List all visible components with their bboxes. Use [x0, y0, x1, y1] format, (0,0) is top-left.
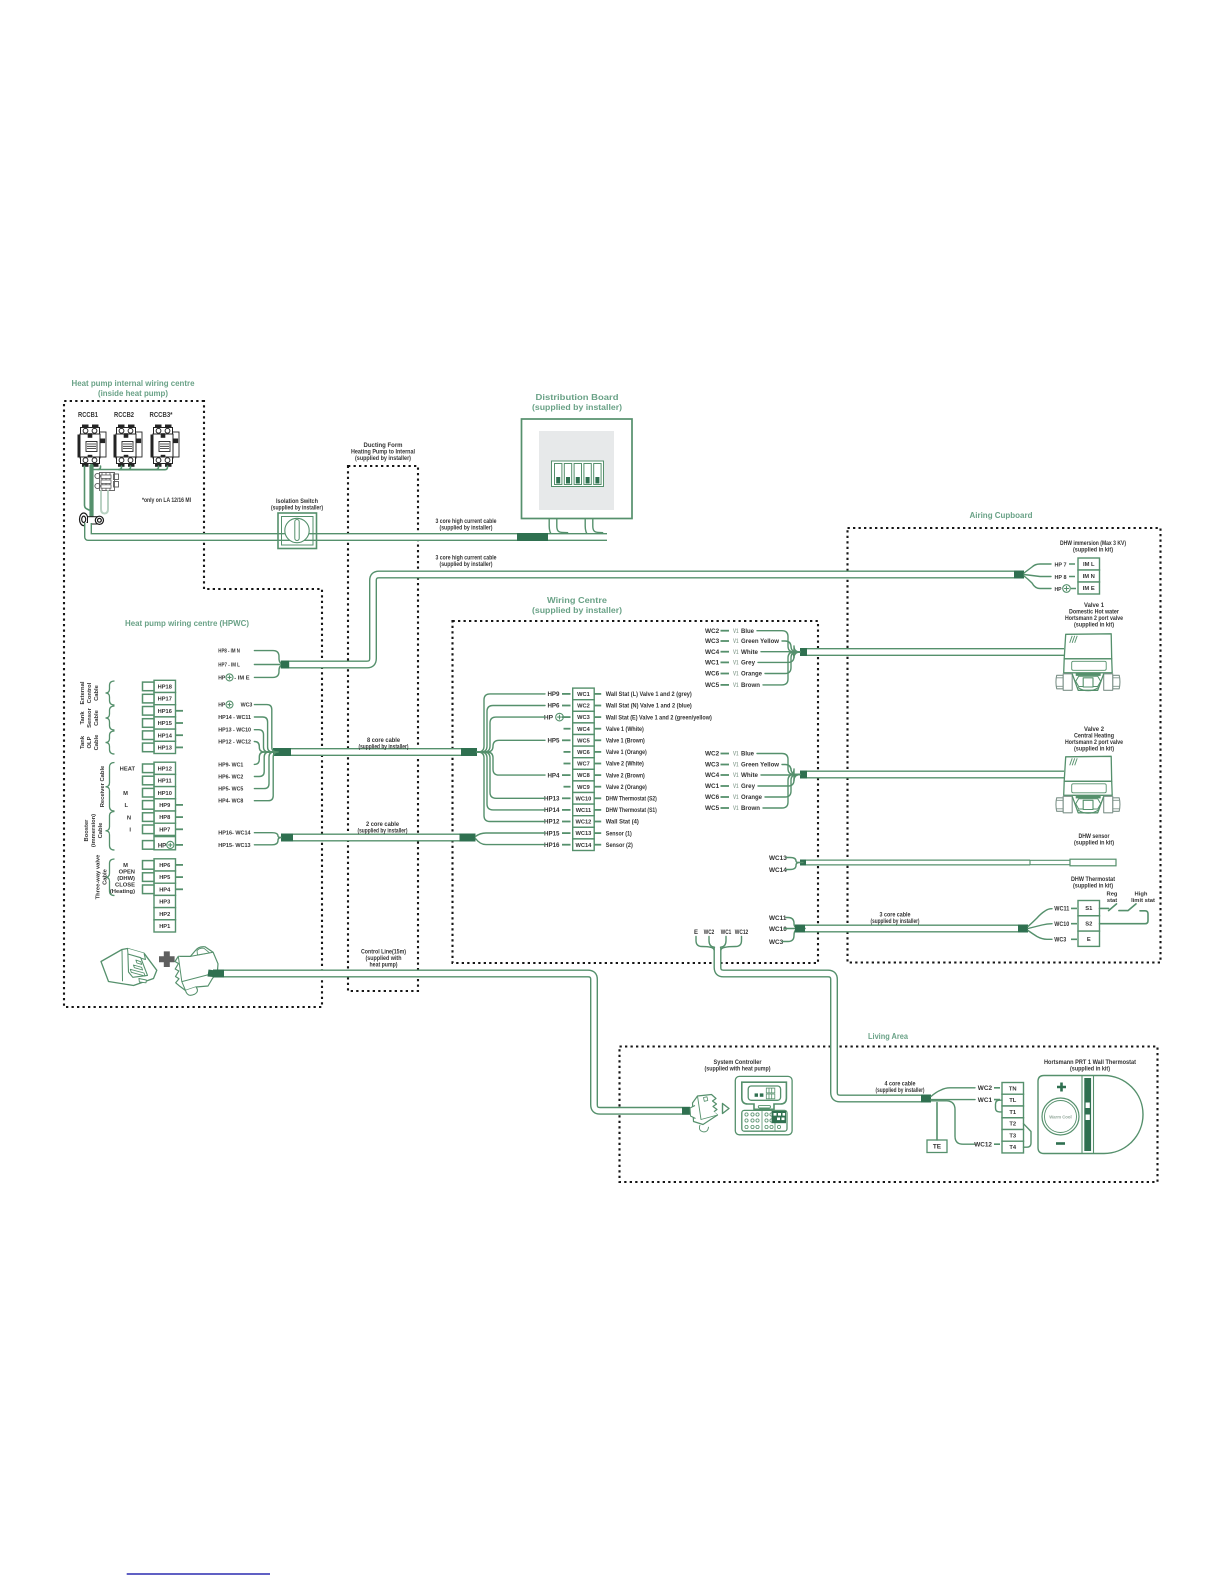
svg-text:IM L: IM L	[1083, 562, 1095, 568]
brace tank OLP cable	[106, 731, 115, 754]
svg-text:*only on LA 12/16 MI: *only on LA 12/16 MI	[142, 497, 191, 504]
svg-text:V1: V1	[733, 784, 739, 790]
svg-text:HP12: HP12	[544, 819, 560, 826]
svg-text:HP5: HP5	[547, 738, 560, 745]
svg-text:HEAT: HEAT	[120, 767, 136, 773]
svg-text:(supplied by installer): (supplied by installer)	[532, 402, 622, 412]
system controller body	[735, 1076, 792, 1134]
TE box	[927, 1140, 947, 1153]
svg-text:CLOSE: CLOSE	[115, 883, 135, 889]
svg-text:Valve 2 (White): Valve 2 (White)	[606, 761, 644, 768]
svg-text:WC1: WC1	[705, 783, 720, 790]
svg-text:V1: V1	[733, 672, 739, 678]
svg-text:OLP: OLP	[87, 736, 93, 748]
svg-text:(supplied by installer): (supplied by installer)	[871, 918, 920, 925]
svg-text:HP7 - IM L: HP7 - IM L	[218, 663, 240, 669]
svg-text:V1: V1	[733, 752, 739, 758]
3 core cable to DHW thermostat	[805, 925, 1018, 933]
HPWC connector plug A	[101, 949, 157, 986]
svg-text:HP10: HP10	[158, 791, 172, 797]
svg-text:(supplied by installer): (supplied by installer)	[359, 744, 409, 751]
wires: IM group to 3 core cable	[254, 651, 285, 665]
svg-text:Heat pump wiring centre (HPWC): Heat pump wiring centre (HPWC)	[125, 618, 249, 628]
HPWC connector plug B	[175, 947, 218, 996]
svg-text:Orange: Orange	[741, 671, 762, 678]
svg-text:HP9- WC1: HP9- WC1	[218, 762, 243, 768]
svg-text:HP9: HP9	[547, 691, 560, 698]
svg-text:Sensor (1): Sensor (1)	[606, 830, 632, 837]
svg-text:Reg: Reg	[1107, 892, 1118, 898]
breaker RCCB3	[151, 425, 180, 466]
svg-text:S2: S2	[1085, 922, 1092, 928]
main power pipe from gland to distribution board	[88, 523, 517, 537]
system controller connector plug	[690, 1095, 718, 1132]
svg-text:Brown: Brown	[741, 682, 760, 689]
label HP9 at WC1	[562, 693, 571, 695]
svg-text:WC12: WC12	[576, 820, 592, 826]
svg-text:TL: TL	[1009, 1098, 1017, 1104]
svg-text:HP16: HP16	[544, 842, 560, 849]
svg-text:T4: T4	[1009, 1145, 1017, 1151]
4 core cable: wiring centre to living area	[718, 947, 922, 1099]
svg-text:(supplied by installer): (supplied by installer)	[358, 828, 408, 835]
svg-text:Cable: Cable	[94, 684, 100, 701]
svg-text:WC5: WC5	[705, 682, 720, 689]
svg-text:External: External	[80, 681, 86, 704]
plus sign	[159, 951, 175, 967]
svg-text:HP16- WC14: HP16- WC14	[218, 831, 251, 837]
svg-text:WC3: WC3	[241, 703, 253, 709]
svg-text:White: White	[741, 772, 758, 779]
svg-text:(supplied by installer): (supplied by installer)	[440, 561, 493, 568]
svg-text:stat: stat	[1107, 898, 1117, 904]
svg-text:(supplied in kit): (supplied in kit)	[1074, 622, 1114, 629]
svg-text:Green Yellow: Green Yellow	[741, 762, 779, 769]
svg-text:Distribution Board: Distribution Board	[536, 392, 619, 402]
svg-text:WC6: WC6	[705, 794, 720, 801]
svg-text:(supplied by installer): (supplied by installer)	[271, 505, 323, 512]
HPWC terminal column group 1 (HP18-HP13)	[154, 680, 176, 753]
svg-text:Blue: Blue	[741, 628, 754, 635]
svg-text:DHW Thermostat (S2): DHW Thermostat (S2)	[606, 796, 657, 803]
svg-text:L: L	[124, 803, 128, 809]
svg-text:WC8: WC8	[577, 773, 590, 779]
svg-text:WC12: WC12	[735, 930, 749, 936]
svg-text:(supplied by installer): (supplied by installer)	[440, 525, 493, 532]
wire: 8 core fan to WC5	[477, 740, 545, 752]
T2-T4 right jumper	[1024, 1124, 1032, 1148]
svg-text:HP: HP	[218, 675, 225, 681]
svg-text:Tank: Tank	[80, 711, 86, 725]
svg-text:HP8 - IM N: HP8 - IM N	[218, 649, 240, 655]
svg-text:HP4: HP4	[547, 772, 560, 779]
svg-text:T1: T1	[1009, 1110, 1017, 1116]
WC12 description: Wall Stat (4)	[594, 821, 601, 823]
svg-text:HP12 - WC12: HP12 - WC12	[218, 740, 251, 746]
wire: 8 core fan to WC1	[477, 694, 545, 752]
svg-text:WC13: WC13	[576, 831, 592, 837]
svg-text:V1: V1	[733, 763, 739, 769]
svg-text:(DHW): (DHW)	[117, 876, 135, 882]
svg-text:Heat pump internal wiring cent: Heat pump internal wiring centre	[72, 378, 195, 388]
svg-text:Control: Control	[87, 682, 93, 703]
WC9 description: Valve 2 (Orange)	[594, 786, 601, 788]
TL-T1 left jumper	[996, 1100, 1003, 1112]
svg-text:(supplied with heat pump): (supplied with heat pump)	[705, 1066, 771, 1073]
svg-text:WC10: WC10	[576, 796, 592, 802]
svg-text:Valve 2 (Brown): Valve 2 (Brown)	[606, 772, 645, 779]
sensor probe	[1030, 860, 1070, 864]
cable dark segment at distribution board	[517, 533, 548, 541]
svg-text:WC2: WC2	[577, 704, 590, 710]
svg-text:(supplied in kit): (supplied in kit)	[1074, 746, 1114, 753]
svg-text:WC10: WC10	[769, 926, 787, 933]
wire: 8 core fan to WC10	[477, 752, 545, 798]
svg-text:HP: HP	[158, 843, 166, 849]
wire: 8 core fan to WC2	[477, 706, 545, 753]
2 core cable pipe	[293, 834, 460, 842]
blue footer line	[127, 1573, 270, 1575]
wire: RCCB1 left pole down	[85, 466, 90, 510]
svg-text:WC4: WC4	[577, 727, 590, 733]
svg-text:WC12: WC12	[974, 1141, 992, 1148]
HPWC terminal column group 2 (HP12-HP7)	[154, 762, 176, 835]
DHW thermostat terminal block S1/S2/E	[1078, 901, 1100, 947]
label HP13 at WC10	[562, 797, 571, 799]
svg-text:M: M	[123, 863, 128, 869]
wire: RCCB1 thick feed down	[89, 466, 93, 518]
svg-text:Blue: Blue	[741, 751, 754, 758]
label HP14 at WC11	[562, 809, 571, 811]
svg-text:WC3: WC3	[705, 762, 720, 769]
svg-text:V1: V1	[733, 806, 739, 812]
svg-text:HP12: HP12	[158, 766, 172, 772]
svg-text:HP8: HP8	[159, 815, 170, 821]
svg-text:Three-way valve: Three-way valve	[96, 854, 102, 900]
svg-text:V1: V1	[733, 639, 739, 645]
WC4 description: Valve 1 (White)	[594, 728, 601, 730]
wires: 8 core group to cable	[254, 705, 276, 752]
ducting form dotted box	[348, 466, 418, 991]
svg-text:(supplied by installer): (supplied by installer)	[532, 605, 622, 615]
svg-text:WC2: WC2	[705, 628, 720, 635]
brace three-way valve cable	[106, 859, 115, 896]
svg-text:S1: S1	[1085, 906, 1093, 912]
svg-text:HP15: HP15	[158, 721, 172, 727]
svg-text:HP14 - WC11: HP14 - WC11	[218, 715, 251, 721]
svg-text:Valve 1 (Orange): Valve 1 (Orange)	[606, 749, 647, 756]
label HP6 at WC2	[562, 705, 571, 707]
svg-text:WC14: WC14	[576, 843, 593, 849]
svg-text:V1: V1	[733, 650, 739, 656]
svg-text:WC13: WC13	[769, 855, 787, 862]
svg-text:WC4: WC4	[705, 772, 720, 779]
svg-text:IM N: IM N	[1083, 574, 1095, 580]
airing cupboard dotted box	[848, 528, 1161, 963]
svg-text:HP7: HP7	[159, 827, 170, 833]
svg-text:(Heating): (Heating)	[110, 889, 135, 895]
brace external control cable	[106, 681, 115, 705]
control line dark segment at plug	[213, 970, 224, 978]
svg-text:V1: V1	[733, 773, 739, 779]
svg-text:DHW Thermostat (S1): DHW Thermostat (S1)	[606, 807, 657, 814]
DHW sensor cable pipe	[806, 860, 1030, 866]
svg-text:V1: V1	[733, 661, 739, 667]
brace receiver cable	[106, 763, 115, 812]
svg-text:White: White	[741, 649, 758, 656]
svg-text:WC11: WC11	[1054, 907, 1070, 913]
svg-text:WC1: WC1	[705, 660, 720, 667]
svg-text:Cable: Cable	[98, 822, 104, 839]
HPWC right-side stub dashes	[176, 711, 184, 890]
svg-text:WC9: WC9	[577, 785, 590, 791]
svg-text:Wall Stat (L) Valve 1 and 2 (g: Wall Stat (L) Valve 1 and 2 (grey)	[606, 691, 692, 698]
svg-text:(supplied in kit): (supplied in kit)	[1074, 840, 1114, 847]
svg-text:HP14: HP14	[158, 733, 173, 739]
WC3 description: Wall Stat (E) Valve 1 and 2 (green/yellow)	[594, 716, 601, 718]
svg-text:WC5: WC5	[705, 805, 720, 812]
svg-text:HP: HP	[218, 703, 225, 709]
svg-text:HP13 - WC10: HP13 - WC10	[218, 728, 251, 734]
svg-text:HP13: HP13	[544, 796, 560, 803]
svg-text:HP13: HP13	[158, 746, 172, 752]
svg-text:Tank: Tank	[80, 735, 86, 749]
triangle arrow	[723, 1104, 730, 1114]
svg-text:V1: V1	[733, 629, 739, 635]
label HP4 at WC8	[562, 774, 571, 776]
conduits below distribution board	[553, 519, 568, 537]
svg-text:HP2: HP2	[159, 912, 170, 918]
WC13 description: Sensor (1)	[594, 832, 601, 834]
wires: 2 core fan to WC13/WC14	[476, 833, 546, 837]
svg-text:WC5: WC5	[577, 738, 590, 744]
svg-text:- IM E: - IM E	[234, 675, 250, 681]
breaker RCCB1	[78, 425, 107, 466]
svg-text:HP18: HP18	[158, 685, 172, 691]
wall thermostat body	[1038, 1076, 1143, 1154]
isolation switch box	[276, 513, 318, 549]
wire TE branch	[936, 1103, 938, 1141]
HPWC connector tabs	[143, 682, 155, 894]
svg-text:HP16: HP16	[158, 709, 172, 715]
svg-text:Sensor (2): Sensor (2)	[606, 842, 633, 849]
living area 4core fan wires	[931, 1088, 975, 1097]
contactor (only on LA 12/16 MI)	[95, 473, 119, 491]
WC10 description: DHW Thermostat (S2)	[594, 797, 601, 799]
svg-text:WC1: WC1	[978, 1097, 993, 1104]
svg-text:WC3: WC3	[769, 939, 784, 946]
8 core cable pipe	[291, 748, 461, 756]
svg-text:M: M	[123, 791, 128, 797]
wire: 8 core fan to WC8	[477, 752, 545, 775]
svg-text:HP15- WC13: HP15- WC13	[218, 843, 250, 849]
wiring centre terminal column WC1-WC14	[573, 688, 595, 850]
svg-text:OPEN: OPEN	[119, 870, 135, 876]
svg-text:WC6: WC6	[705, 671, 720, 678]
valve 2 graphic	[1056, 756, 1120, 813]
svg-text:WC10: WC10	[1054, 922, 1070, 928]
svg-text:HP1: HP1	[159, 924, 170, 930]
wire: 8 core fan to WC12	[477, 752, 545, 822]
svg-text:RCCB3*: RCCB3*	[150, 412, 173, 419]
distribution board box	[522, 419, 633, 519]
WC6 description: Valve 1 (Orange)	[594, 751, 601, 753]
WC8 description: Valve 2 (Brown)	[594, 774, 601, 776]
svg-text:(inside heat pump): (inside heat pump)	[98, 388, 168, 398]
svg-text:WC1: WC1	[721, 930, 732, 936]
svg-text:E: E	[694, 930, 698, 936]
brace booster cable	[106, 812, 115, 851]
living area dotted box	[620, 1047, 1158, 1183]
svg-text:Grey: Grey	[741, 783, 755, 790]
svg-text:V1: V1	[733, 683, 739, 689]
WC7 description: Valve 2 (White)	[594, 763, 601, 765]
svg-text:HP17: HP17	[158, 697, 172, 703]
svg-text:Receiver Cable: Receiver Cable	[100, 765, 106, 807]
svg-text:WC2: WC2	[704, 930, 715, 936]
svg-text:HP 7: HP 7	[1055, 562, 1067, 568]
svg-text:RCCB2: RCCB2	[114, 412, 134, 419]
svg-text:Wall Stat (E) Valve 1 and 2 (g: Wall Stat (E) Valve 1 and 2 (green/yello…	[606, 714, 712, 721]
wire: 8 core fan to WC3	[477, 717, 545, 752]
svg-text:(supplied by installer): (supplied by installer)	[876, 1087, 925, 1094]
svg-text:WC2: WC2	[705, 751, 720, 758]
svg-text:Cable: Cable	[102, 868, 108, 885]
svg-text:HP6: HP6	[547, 703, 560, 710]
svg-text:Grey: Grey	[741, 660, 755, 667]
thermostat wire fan	[1028, 909, 1052, 927]
label HP5 at WC5	[562, 739, 571, 741]
WC1 description: Wall Stat (L) Valve 1 and 2 (grey)	[594, 693, 601, 695]
svg-text:HP: HP	[1055, 587, 1062, 593]
svg-text:HP15: HP15	[544, 830, 560, 837]
svg-text:WC11: WC11	[576, 808, 592, 814]
svg-text:WC1: WC1	[577, 692, 590, 698]
svg-text:IM E: IM E	[1083, 586, 1095, 592]
svg-text:HP11: HP11	[158, 779, 172, 785]
svg-text:HP14: HP14	[544, 807, 560, 814]
svg-text:Valve 1 (White): Valve 1 (White)	[606, 726, 644, 733]
svg-text:T2: T2	[1009, 1122, 1016, 1128]
svg-text:HP6- WC2: HP6- WC2	[218, 775, 243, 781]
svg-text:Wiring Centre: Wiring Centre	[547, 595, 607, 605]
svg-text:Airing Cupboard: Airing Cupboard	[970, 510, 1033, 520]
IM terminal block	[1078, 558, 1100, 594]
valve 2 six-wire cable pipe	[807, 771, 1064, 779]
svg-text:(supplied in kit): (supplied in kit)	[1073, 547, 1113, 554]
heat pump internal wiring centre + HPWC combined dotted box	[64, 401, 322, 1007]
cable gland connector bottom left	[80, 513, 104, 526]
WC5 description: Valve 1 (Brown)	[594, 739, 601, 741]
svg-text:Valve 1 (Brown): Valve 1 (Brown)	[606, 738, 645, 745]
svg-text:High: High	[1135, 892, 1148, 898]
breaker RCCB2	[114, 425, 143, 466]
wire: light green loop under contactor	[101, 491, 108, 514]
svg-text:(supplied in kit): (supplied in kit)	[1073, 883, 1113, 890]
HPWC earth terminal cell	[154, 837, 176, 850]
svg-text:HP5: HP5	[159, 875, 170, 881]
svg-text:limit stat: limit stat	[1131, 898, 1155, 904]
svg-text:WC11: WC11	[769, 915, 787, 922]
svg-text:Cable: Cable	[94, 709, 100, 726]
label HP16 at WC14	[562, 844, 571, 846]
svg-text:WC3: WC3	[577, 715, 590, 721]
svg-text:WC6: WC6	[577, 750, 590, 756]
label HP12 at WC12	[562, 821, 571, 823]
svg-text:HP4- WC8: HP4- WC8	[218, 799, 243, 805]
T terminal block	[1002, 1083, 1024, 1153]
wire: 8 core fan to WC11	[477, 752, 545, 810]
svg-text:N: N	[127, 815, 131, 821]
svg-text:TN: TN	[1009, 1087, 1017, 1093]
brace tank sensor cable	[106, 706, 115, 730]
svg-text:Green Yellow: Green Yellow	[741, 638, 779, 645]
svg-text:WC14: WC14	[769, 867, 787, 874]
svg-text:TE: TE	[933, 1144, 942, 1151]
svg-text:HP 8: HP 8	[1055, 575, 1068, 581]
svg-text:Warm Cool: Warm Cool	[1049, 1114, 1072, 1119]
valve 1 six-wire cable pipe	[807, 648, 1064, 656]
svg-text:WC7: WC7	[577, 762, 590, 768]
svg-text:(immersion): (immersion)	[91, 814, 97, 847]
svg-text:Orange: Orange	[741, 794, 762, 801]
svg-text:(supplied by installer): (supplied by installer)	[355, 455, 411, 462]
svg-text:Sensor: Sensor	[87, 707, 93, 727]
svg-text:V1: V1	[733, 795, 739, 801]
svg-text:Brown: Brown	[741, 805, 760, 812]
svg-text:HP9: HP9	[159, 803, 170, 809]
wiring centre dotted box	[453, 621, 819, 963]
switch chain wires	[1100, 904, 1149, 924]
svg-text:WC2: WC2	[978, 1085, 993, 1092]
svg-text:(supplied in kit): (supplied in kit)	[1070, 1066, 1110, 1073]
svg-text:HP4: HP4	[159, 887, 171, 893]
svg-text:HP: HP	[544, 714, 554, 721]
WC2 description: Wall Stat (N) Valve 1 and 2 (blue)	[594, 705, 601, 707]
svg-text:Wall Stat (4): Wall Stat (4)	[606, 819, 639, 826]
HPWC terminal column group 3 (HP6-HP1)	[154, 859, 176, 932]
svg-text:E: E	[1087, 937, 1091, 943]
wire: RCCB2/RCCB3 bottoms to collector	[93, 469, 159, 471]
svg-text:RCCB1: RCCB1	[78, 412, 98, 419]
svg-text:Living Area: Living Area	[868, 1031, 908, 1041]
3 core high current cable: HPWC to IM terminals via ducting	[289, 575, 1014, 665]
stub dashes rows without labels	[564, 728, 571, 730]
svg-text:Cable: Cable	[94, 734, 100, 751]
svg-text:HP3: HP3	[159, 900, 170, 906]
control line pipe HPWC to system controller	[224, 974, 682, 1111]
svg-text:WC3: WC3	[705, 638, 720, 645]
svg-text:Valve 2 (Orange): Valve 2 (Orange)	[606, 784, 647, 791]
label HP15 at WC13	[562, 832, 571, 834]
svg-text:Booster: Booster	[84, 819, 90, 842]
svg-text:HP5- WC5: HP5- WC5	[218, 787, 243, 793]
svg-text:WC4: WC4	[705, 649, 720, 656]
svg-text:HP6: HP6	[159, 863, 170, 869]
valve 1 graphic	[1056, 634, 1120, 691]
WC11 description: DHW Thermostat (S1)	[594, 809, 601, 811]
IM wire fan	[1024, 564, 1051, 573]
svg-text:Wall Stat (N) Valve 1 and 2 (b: Wall Stat (N) Valve 1 and 2 (blue)	[606, 703, 692, 710]
svg-text:T3: T3	[1009, 1134, 1017, 1140]
WC14 description: Sensor (2)	[594, 844, 601, 846]
svg-text:heat pump): heat pump)	[370, 962, 398, 969]
svg-text:WC3: WC3	[1054, 938, 1067, 944]
